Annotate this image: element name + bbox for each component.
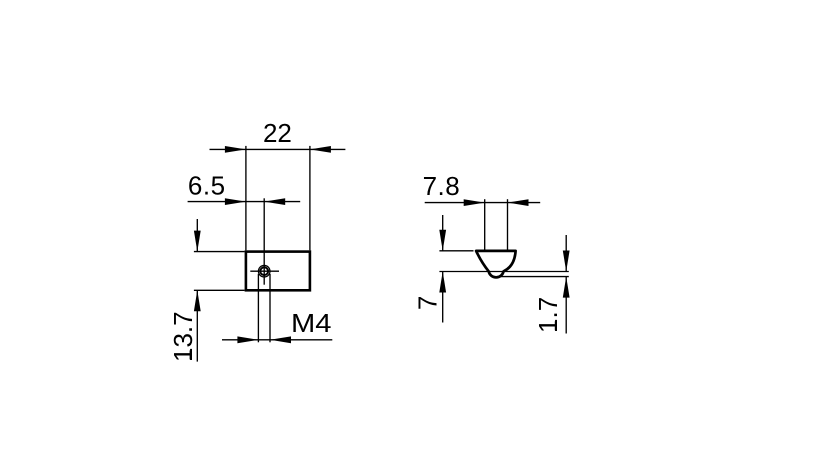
svg-text:7: 7 (412, 296, 442, 310)
svg-text:1.7: 1.7 (533, 297, 563, 333)
svg-text:M4: M4 (291, 308, 332, 338)
svg-text:13.7: 13.7 (168, 311, 198, 362)
svg-text:6.5: 6.5 (188, 171, 226, 201)
svg-text:22: 22 (263, 118, 292, 148)
svg-text:7.8: 7.8 (423, 171, 461, 201)
